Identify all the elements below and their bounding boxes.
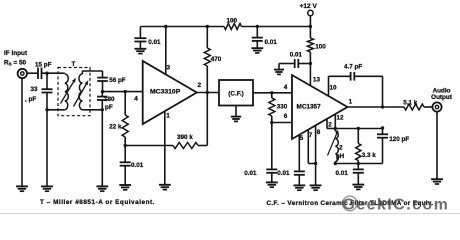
- op-amp U1 MC3310P: [143, 61, 197, 124]
- resistor 100 (vertical): [307, 27, 326, 86]
- svg-text:3.3 k: 3.3 k: [362, 152, 377, 159]
- +12 V supply terminal: [300, 3, 318, 27]
- svg-text:IF Input: IF Input: [4, 50, 28, 57]
- capacitor 0.01 (rail bypass): [252, 27, 277, 49]
- svg-text:3: 3: [167, 64, 171, 71]
- wire input to C1: [26, 72, 38, 74]
- svg-text:8: 8: [317, 129, 321, 136]
- ground (AGC bypass): [119, 185, 131, 190]
- resistor 100 (rail): [224, 17, 242, 29]
- capacitor 0.01 (pin 13 bypass): [279, 51, 310, 69]
- svg-text:0.01: 0.01: [148, 39, 161, 46]
- svg-text:180: 180: [104, 96, 115, 103]
- resistor 5.1 k: [403, 99, 432, 110]
- svg-text:µH: µH: [336, 153, 345, 160]
- ground (33 pF / primary): [41, 186, 53, 191]
- capacitor 120 pF: [377, 128, 409, 164]
- wire to pin 4 of U1: [103, 90, 143, 93]
- inductor 2 uH (quad coil): [335, 129, 344, 164]
- svg-text:2: 2: [198, 82, 202, 89]
- audio output connector: [432, 102, 441, 111]
- svg-text:0.01: 0.01: [290, 51, 303, 58]
- wire secondary bottom: [82, 109, 102, 111]
- svg-text:Output: Output: [431, 94, 453, 101]
- svg-text:22 k: 22 k: [109, 124, 122, 131]
- feedback loop 4.7 pF: [329, 63, 383, 107]
- svg-text:5: 5: [300, 135, 304, 142]
- svg-text:0.01: 0.01: [277, 170, 290, 177]
- transformer tuning arrow 2: [74, 81, 89, 107]
- svg-text:T: T: [72, 61, 76, 68]
- svg-text:0.01: 0.01: [336, 170, 349, 177]
- transformer primary winding: [65, 74, 69, 110]
- svg-text:MC1357: MC1357: [297, 104, 322, 111]
- ground (pin 6 cap): [266, 182, 278, 187]
- transformer tuning arrow 1: [61, 79, 76, 104]
- svg-text:33: 33: [31, 86, 39, 93]
- ground (rail bypass): [251, 48, 263, 53]
- node 22k bottom: [124, 144, 127, 147]
- transformer secondary winding: [79, 71, 83, 110]
- capacitor C1 15 pF: [35, 61, 52, 79]
- svg-text:1: 1: [349, 98, 353, 105]
- transformer T dashed box: [58, 61, 90, 116]
- wire node A: [42, 72, 65, 75]
- capacitor C2 33 pF: [25, 73, 53, 103]
- ground (audio output): [431, 111, 443, 184]
- pin 2 label: [198, 82, 202, 89]
- pin 4 label: [134, 95, 138, 102]
- wire pin 7: [308, 130, 315, 164]
- IC U2 MC1357: [292, 75, 348, 139]
- node quad coil top: [334, 127, 337, 130]
- pin 10 label: [330, 84, 338, 91]
- svg-text:0.01: 0.01: [244, 170, 257, 177]
- input connector J1 (IF Input): [18, 69, 27, 78]
- resistor 330: [269, 93, 288, 123]
- wire filter to pin 4 of U2: [253, 91, 292, 94]
- capacitor 0.01 (AGC bypass): [120, 146, 144, 185]
- capacitor 180 pF: [97, 92, 115, 187]
- svg-text:pF: pF: [105, 104, 113, 111]
- ground (pin 13 bypass): [274, 70, 284, 75]
- wire pin 12 (U2): [334, 114, 336, 129]
- pin 1 label (U2): [349, 98, 353, 105]
- svg-text:2: 2: [328, 121, 332, 128]
- ground (input connector): [16, 78, 28, 192]
- pin 12 label: [337, 115, 345, 122]
- ground (pin 3 bypass): [135, 49, 147, 54]
- capacitor 0.01 (pin 3 bypass): [134, 27, 161, 49]
- capacitor 0.01 (pin 5): [277, 135, 305, 185]
- ground (pin 1): [159, 185, 171, 190]
- ground (180 pF): [96, 186, 108, 191]
- wire pin 8 to ground: [314, 126, 317, 186]
- svg-text:12: 12: [337, 115, 345, 122]
- ground (de-emphasis): [352, 185, 364, 190]
- wire pin 2 (U2): [327, 119, 335, 129]
- svg-text:, pF: , pF: [25, 96, 36, 103]
- svg-text:4: 4: [134, 95, 138, 102]
- label Audio Output: [431, 88, 453, 102]
- svg-text:330: 330: [277, 104, 288, 111]
- label IF Input / Rs = 50: [4, 50, 28, 67]
- svg-text:7: 7: [309, 132, 313, 139]
- svg-text:4: 4: [284, 84, 288, 91]
- scan artifact line: [0, 213, 460, 215]
- node 330 bottom: [270, 121, 273, 124]
- wire audio output line: [348, 105, 405, 108]
- svg-text:2: 2: [339, 144, 343, 151]
- svg-text:470: 470: [211, 56, 222, 63]
- pin 4 label (U2): [284, 84, 288, 91]
- ceramic filter box (C.F.): [219, 80, 253, 106]
- svg-text:GeekIC.com: GeekIC.com: [343, 196, 450, 213]
- pin 6 label: [284, 113, 288, 120]
- ground (pins 7-8): [310, 185, 322, 190]
- caption transformer note: [40, 199, 155, 206]
- svg-text:0.01: 0.01: [265, 39, 278, 46]
- svg-text:10: 10: [330, 84, 338, 91]
- capacitor 56 pF: [97, 71, 126, 92]
- wire +12V rail: [140, 25, 312, 28]
- svg-text:13: 13: [313, 76, 321, 83]
- capacitor 0.01 (pin 6): [244, 123, 277, 183]
- wire feedback to output node: [198, 93, 207, 146]
- wire de-emphasis top rail: [335, 126, 384, 130]
- svg-text:56 pF: 56 pF: [109, 77, 126, 84]
- node secondary / pin4 junction: [101, 90, 104, 93]
- svg-text:(C.F.): (C.F.): [228, 90, 243, 97]
- svg-text:+12 V: +12 V: [300, 3, 318, 10]
- svg-text:0.01: 0.01: [131, 162, 144, 169]
- svg-text:5.1 k: 5.1 k: [403, 99, 418, 106]
- svg-text:1: 1: [166, 112, 170, 119]
- wire U1 output: [197, 91, 219, 94]
- pin 7 label: [309, 132, 313, 139]
- svg-text:6: 6: [284, 113, 288, 120]
- wire de-emphasis bottom rail: [334, 162, 383, 165]
- svg-text:4.7 pF: 4.7 pF: [344, 63, 362, 70]
- svg-text:120 pF: 120 pF: [389, 136, 409, 143]
- quad coil tuning arrow: [328, 131, 339, 156]
- resistor 470: [204, 27, 222, 93]
- wire feedback left: [125, 145, 173, 147]
- wire pin 3: [164, 25, 167, 75]
- wire pin 1 to ground: [164, 112, 166, 185]
- svg-text:T – Miller #8851-A or Equivale: T – Miller #8851-A or Equivalent.: [40, 199, 155, 206]
- watermark: [343, 196, 450, 213]
- pin 5 label: [300, 135, 304, 142]
- wire 33pF to ground: [45, 93, 48, 187]
- svg-text:RS = 50: RS = 50: [4, 59, 27, 66]
- pin 3 label: [167, 64, 171, 71]
- caption ceramic filter note: [267, 200, 434, 207]
- svg-text:390 k: 390 k: [177, 134, 193, 141]
- resistor 390 k: [173, 134, 198, 149]
- wire secondary top: [82, 70, 102, 72]
- svg-text:100: 100: [315, 43, 326, 50]
- pin 13 label: [313, 76, 321, 83]
- resistor 3.3 k: [356, 129, 377, 164]
- pin 8 label: [317, 129, 321, 136]
- pin 2 label (U2): [328, 121, 332, 128]
- svg-text:15 pF: 15 pF: [35, 61, 52, 68]
- wire primary bottom: [47, 109, 65, 111]
- wire pin 6: [272, 122, 292, 124]
- ground (filter): [231, 106, 241, 122]
- pin 1 label: [166, 112, 170, 119]
- ground (pin 5): [293, 185, 305, 190]
- capacitor 0.01 (de-emphasis): [336, 164, 364, 185]
- resistor 22 k: [109, 92, 128, 146]
- svg-text:100: 100: [227, 17, 238, 24]
- svg-text:MC3310P: MC3310P: [150, 88, 181, 95]
